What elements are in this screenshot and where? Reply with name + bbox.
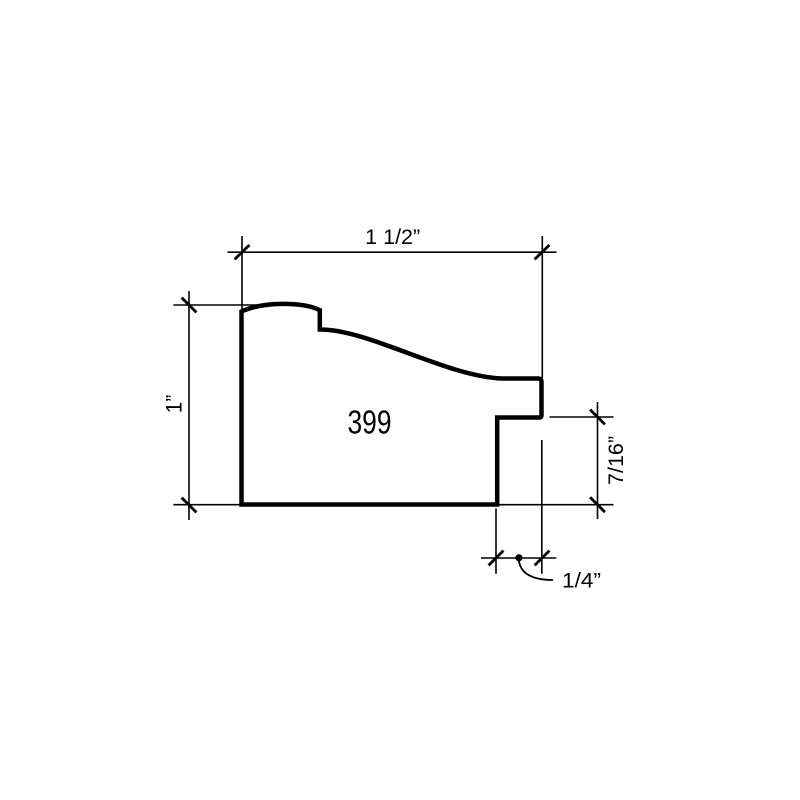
svg-text:399: 399 [348,404,392,441]
dimension line bottom (1/4") [481,557,556,559]
tick bottom-left [489,551,504,566]
svg-text:1”: 1” [162,395,187,414]
tick left-bottom [182,498,197,513]
extension line bottom-right (x=541.8) [541,440,543,574]
tick bottom-right [535,551,550,566]
extension line top-left (x=242) [241,236,243,311]
dimension line top (1 1/2") [228,251,557,253]
leader curve [519,561,553,581]
tick right-top [590,410,605,425]
extension line right-top (y=417) [550,416,614,418]
svg-text:7/16”: 7/16” [605,436,628,485]
extension line top-right (x=542.3) [541,236,543,378]
moulding profile 399 outline [242,304,542,505]
tick left-top [182,298,197,313]
svg-text:1/4”: 1/4” [562,570,601,593]
extension line left-top (y=305) [173,304,290,306]
extension line bottom-left (x=496) [495,509,497,574]
dimension line left (1") [188,291,190,520]
tick right-bottom [590,497,605,512]
leader dot [515,554,522,561]
dimension line right (7/16") [597,402,599,519]
svg-text:1 1/2”: 1 1/2” [365,226,420,249]
tick top-right [535,245,550,259]
tick top-left [235,245,250,259]
extension line bottom (y=504.7 across) [173,504,613,506]
